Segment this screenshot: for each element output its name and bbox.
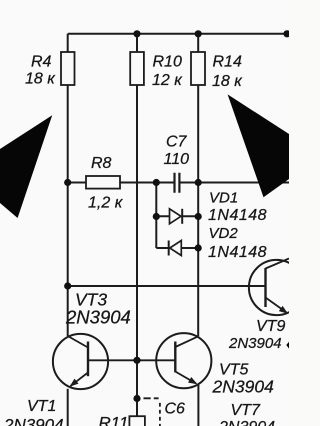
resistor R11 [129,416,145,426]
wire VT3 emitter down [67,389,69,426]
annotation arrow left [0,115,52,218]
wire R4 top lead [67,34,69,52]
svg-text:R8: R8 [91,155,112,172]
wire R10 top lead [136,34,138,52]
svg-text:2N3904: 2N3904 [218,419,275,426]
svg-text:VD2: VD2 [209,225,239,242]
annotation arrow right [228,94,289,197]
svg-text:2N3904: 2N3904 [3,416,64,426]
transistor VT3 [53,334,137,389]
resistor R8 [86,176,120,189]
capacitor C7 [175,173,180,193]
junction node dots [64,30,291,402]
wire long base rail to VT9 [68,285,266,287]
capacitor C6 dashed leads [144,398,160,426]
svg-text:18 к: 18 к [212,73,243,90]
svg-text:1N4148: 1N4148 [208,244,267,261]
svg-text:R10: R10 [153,54,182,71]
svg-text:12 к: 12 к [152,72,183,89]
wire VD1 row [156,215,198,217]
wire diode branch left stub [155,183,157,249]
diode VD2 [169,241,182,256]
wire R8 left lead [68,182,86,184]
wire C7 right to edge [180,182,289,184]
svg-text:R14: R14 [213,54,242,71]
resistor R4 [61,52,75,85]
svg-text:VT1: VT1 [27,398,56,415]
svg-text:2N3904: 2N3904 [212,377,275,397]
wire R8 right to C7 [120,182,174,184]
svg-text:110: 110 [164,151,190,168]
svg-text:C6: C6 [165,401,186,418]
svg-text:R11: R11 [99,414,129,426]
svg-text:1N4148: 1N4148 [208,207,267,224]
wire VT5 emitter down [197,385,199,426]
transistor VT9 [249,259,304,316]
svg-text:C7: C7 [166,133,188,150]
svg-text:VD1: VD1 [209,190,238,207]
resistor R14 [191,52,205,85]
svg-text:1,2 к: 1,2 к [88,195,124,212]
wire left column (R4 bottom to VT3 collector) [67,85,69,336]
resistor R10 [130,52,144,85]
wire right column (R14 bottom to VT5 collector) [197,85,199,336]
diode VD1 [170,209,183,224]
annotation arrow cut at right edge [286,342,289,349]
wire middle column (R10 bottom to R11) [136,85,138,416]
wire VD2 row [156,247,198,249]
wire top rail [68,33,287,35]
svg-text:2N3904: 2N3904 [65,307,131,328]
wire R14 top lead [197,34,199,52]
transistor VT5 [137,333,211,388]
svg-text:VT7: VT7 [231,402,261,419]
svg-text:18 к: 18 к [25,71,56,88]
svg-text:2N3904: 2N3904 [228,335,282,352]
svg-text:VT9: VT9 [256,318,285,335]
svg-text:R4: R4 [31,54,52,71]
